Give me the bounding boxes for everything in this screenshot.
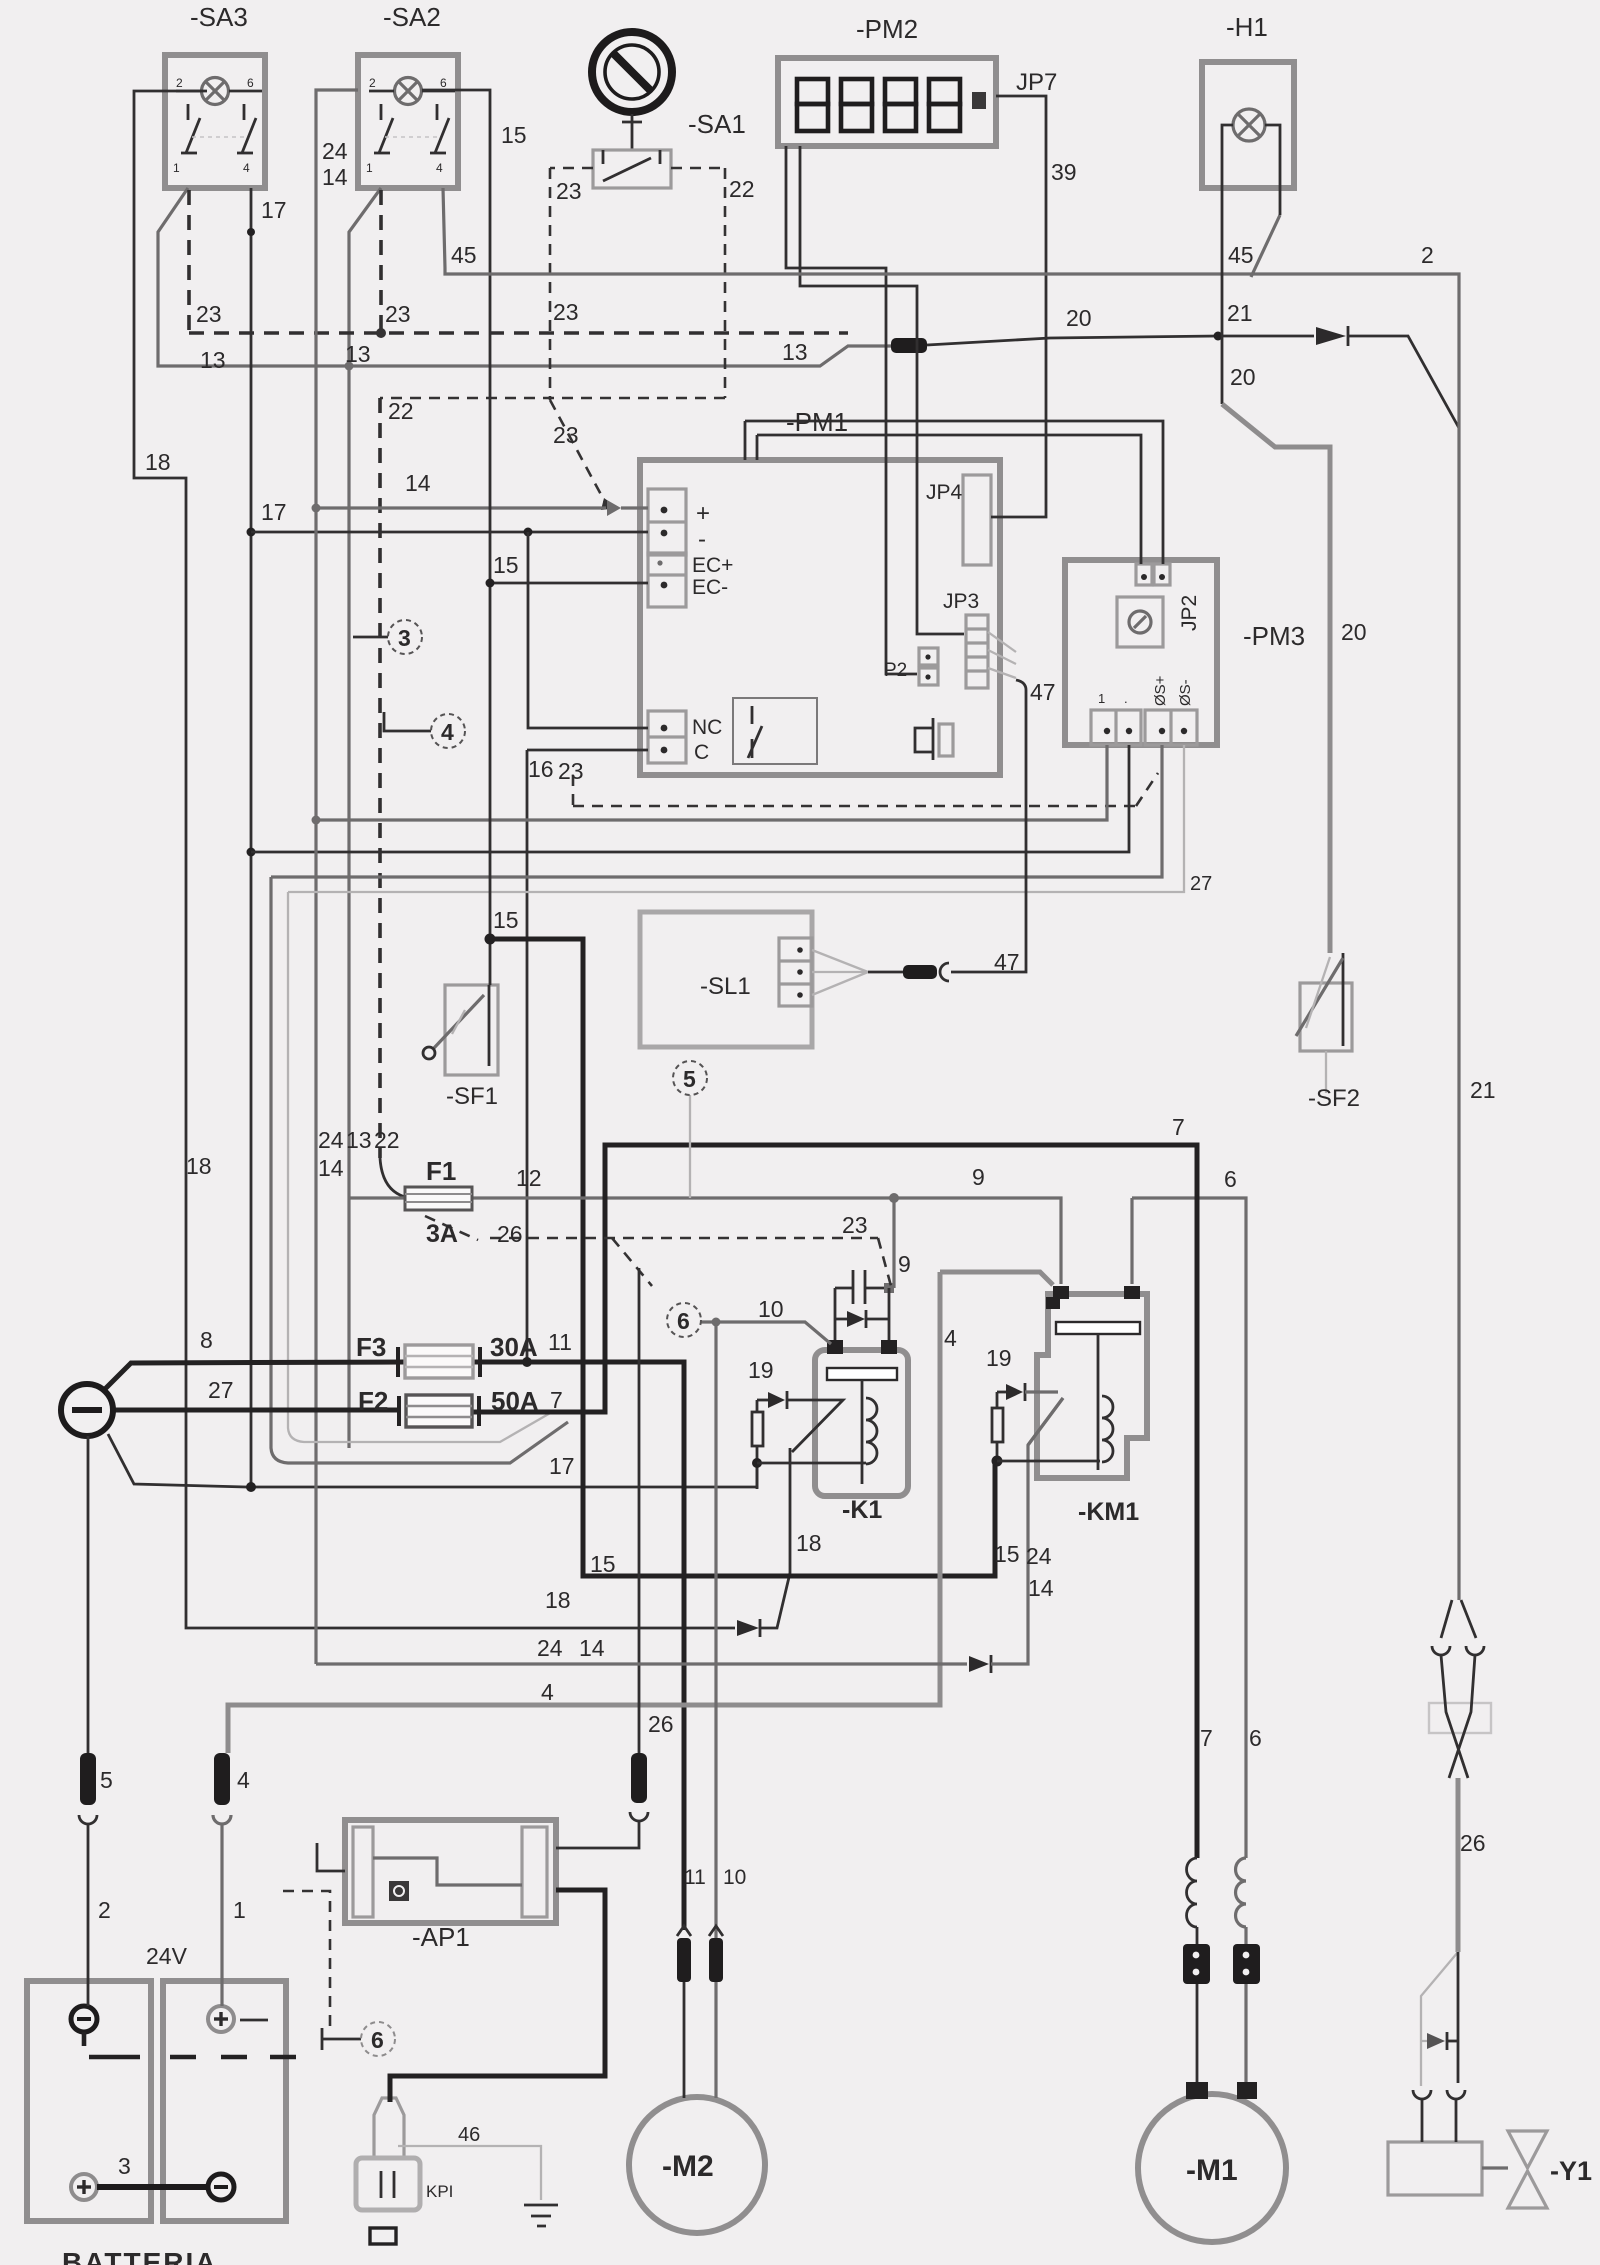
svg-text:-M1: -M1 [1186,2154,1238,2187]
svg-text:C: C [694,741,709,764]
svg-text:-SF2: -SF2 [1308,1085,1360,1112]
svg-text:24: 24 [322,138,348,164]
svg-text:-KM1: -KM1 [1078,1498,1139,1526]
svg-text:20: 20 [1341,619,1367,645]
svg-text:JP7: JP7 [1016,69,1057,96]
svg-text:14: 14 [322,164,348,190]
svg-text:1: 1 [366,161,373,175]
svg-text:30A: 30A [490,1332,538,1362]
svg-text:6: 6 [1224,1166,1237,1192]
svg-text:-AP1: -AP1 [412,1922,470,1952]
svg-text:3A: 3A [426,1220,458,1248]
svg-text:JP4: JP4 [926,481,963,504]
svg-text:45: 45 [451,242,477,268]
svg-text:6: 6 [677,1308,690,1334]
svg-text:ØS-: ØS- [1177,679,1194,706]
svg-text:EC-: EC- [692,576,728,599]
svg-text:P2: P2 [884,660,907,681]
svg-text:18: 18 [545,1587,571,1613]
svg-text:24: 24 [318,1127,344,1153]
svg-text:18: 18 [145,449,171,475]
svg-text:12: 12 [516,1165,542,1191]
svg-text:-SF1: -SF1 [446,1083,498,1110]
svg-text:13: 13 [782,339,808,365]
svg-text:+: + [696,500,710,527]
svg-text:2: 2 [369,76,376,90]
svg-text:26: 26 [648,1711,674,1737]
svg-text:-K1: -K1 [842,1496,882,1524]
svg-text:24: 24 [537,1635,563,1661]
svg-text:JP3: JP3 [943,590,979,613]
svg-text:15: 15 [493,552,519,578]
svg-text:1: 1 [233,1897,246,1923]
svg-text:4: 4 [541,1679,554,1705]
svg-text:3: 3 [398,625,411,651]
svg-text:21: 21 [1470,1077,1496,1103]
svg-text:18: 18 [796,1530,822,1556]
svg-text:23: 23 [196,301,222,327]
svg-text:27: 27 [208,1377,234,1403]
svg-text:45: 45 [1228,242,1254,268]
svg-text:4: 4 [243,161,250,175]
svg-text:26: 26 [1460,1830,1486,1856]
svg-text:-PM3: -PM3 [1243,621,1305,651]
svg-text:-SA3: -SA3 [190,2,248,32]
svg-text:6: 6 [247,76,254,90]
svg-text:11: 11 [548,1329,572,1355]
svg-text:23: 23 [558,758,584,784]
svg-text:19: 19 [748,1357,774,1383]
svg-text:23: 23 [842,1212,868,1238]
svg-text:24: 24 [1026,1543,1052,1569]
svg-text:20: 20 [1230,364,1256,390]
svg-text:13: 13 [346,1127,372,1153]
svg-text:9: 9 [972,1164,985,1190]
svg-text:20: 20 [1066,305,1092,331]
svg-text:23: 23 [553,299,579,325]
svg-text:13: 13 [345,341,371,367]
svg-text:10: 10 [758,1296,784,1322]
svg-text:4: 4 [237,1767,250,1793]
svg-text:10: 10 [723,1866,746,1889]
svg-text:9: 9 [898,1251,911,1277]
svg-text:7: 7 [1172,1114,1185,1140]
svg-text:17: 17 [261,197,287,223]
svg-text:4: 4 [441,719,454,745]
svg-text:19: 19 [986,1345,1012,1371]
svg-text:39: 39 [1051,159,1077,185]
svg-text:5: 5 [100,1767,113,1793]
svg-text:17: 17 [549,1453,575,1479]
svg-text:JP2: JP2 [1178,595,1201,631]
svg-text:27: 27 [1190,873,1212,895]
svg-text:22: 22 [388,398,414,424]
svg-text:22: 22 [374,1127,400,1153]
svg-text:46: 46 [458,2124,480,2146]
svg-text:16: 16 [528,756,554,782]
svg-text:F1: F1 [426,1156,456,1186]
svg-text:BATTERIA: BATTERIA [62,2247,217,2265]
svg-text:15: 15 [493,907,519,933]
svg-text:23: 23 [556,178,582,204]
svg-text:F2: F2 [358,1386,388,1416]
svg-text:47: 47 [994,949,1020,975]
svg-text:NC: NC [692,716,722,739]
svg-text:-Y1: -Y1 [1550,2156,1592,2186]
svg-text:-M2: -M2 [662,2150,714,2183]
svg-text:-SL1: -SL1 [700,973,751,1000]
svg-text:23: 23 [385,301,411,327]
svg-text:2: 2 [1421,242,1434,268]
svg-text:-: - [698,526,706,553]
svg-text:14: 14 [318,1155,344,1181]
svg-text:14: 14 [1028,1575,1054,1601]
svg-text:6: 6 [440,76,447,90]
svg-text:.: . [1124,691,1128,706]
svg-text:50A: 50A [491,1386,539,1416]
svg-text:17: 17 [261,499,287,525]
svg-text:-PM2: -PM2 [856,14,918,44]
svg-text:4: 4 [944,1325,957,1351]
svg-text:47: 47 [1030,679,1056,705]
svg-text:6: 6 [371,2027,384,2053]
svg-text:EC+: EC+ [692,554,733,577]
svg-text:ØS+: ØS+ [1152,675,1169,706]
svg-text:15: 15 [994,1541,1020,1567]
svg-text:KPI: KPI [426,2182,453,2201]
svg-text:11: 11 [684,1866,706,1889]
svg-text:7: 7 [1200,1725,1213,1751]
svg-text:14: 14 [405,470,431,496]
svg-text:4: 4 [436,161,443,175]
svg-text:3: 3 [118,2153,131,2179]
svg-text:24V: 24V [146,1943,188,1969]
svg-text:21: 21 [1227,300,1253,326]
svg-text:2: 2 [176,76,183,90]
svg-text:6: 6 [1249,1725,1262,1751]
svg-text:F3: F3 [356,1332,386,1362]
svg-text:2: 2 [98,1897,111,1923]
svg-text:13: 13 [200,347,226,373]
svg-text:23: 23 [553,422,579,448]
svg-text:18: 18 [186,1153,212,1179]
svg-text:7: 7 [550,1387,563,1413]
svg-text:26: 26 [497,1221,523,1247]
svg-text:1: 1 [173,161,180,175]
svg-text:5: 5 [683,1066,696,1092]
svg-text:-H1: -H1 [1226,12,1268,42]
svg-text:14: 14 [579,1635,605,1661]
svg-text:-SA1: -SA1 [688,109,746,139]
svg-text:-SA2: -SA2 [383,2,441,32]
svg-text:1: 1 [1098,691,1105,706]
svg-text:22: 22 [729,176,755,202]
svg-text:15: 15 [590,1551,616,1577]
svg-text:15: 15 [501,122,527,148]
svg-text:8: 8 [200,1327,213,1353]
svg-text:-PM1: -PM1 [786,407,848,437]
